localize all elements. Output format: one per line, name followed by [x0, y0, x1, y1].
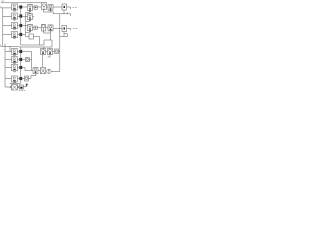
wire gate pin bus: [26, 12, 30, 35]
gate A3: [28, 25, 33, 32]
wire row2 box to junction: [18, 16, 20, 18]
wire row3 terminal lead: [67, 29, 71, 31]
meter P1: [55, 49, 59, 54]
wire row6 left lead: [5, 59, 12, 61]
wire row3 to right: [53, 28, 62, 30]
wire output module pin drop: [63, 10, 65, 14]
wire row4 drop: [39, 37, 41, 46]
gate A2: [28, 14, 33, 21]
fuse F3: [34, 26, 37, 29]
wire row1 junction to gate: [22, 6, 28, 8]
breaker Q4: [29, 34, 34, 39]
wire row7 left lead: [5, 67, 12, 69]
driver B1: [42, 3, 47, 10]
wire top rail: [1, 2, 42, 4]
wire row7 box to junction: [18, 67, 20, 69]
wire row1 terminal lead: [67, 7, 71, 9]
wire O3 pin loop: [60, 32, 68, 37]
wire right bus: [59, 14, 61, 72]
wire row1 box to junction: [18, 6, 20, 8]
wire bottom feed: [10, 83, 20, 84]
wire relay pin drop K1: [50, 10, 52, 12]
opto-coupler U7: [12, 65, 18, 72]
wire row5 to bus: [59, 50, 60, 52]
wire row4 box to junction: [18, 34, 20, 36]
driver B3: [42, 24, 46, 31]
wire upper junction bus: [20, 9, 22, 46]
opto-coupler U4: [12, 32, 18, 39]
wire upper return rail: [21, 44, 44, 46]
wire driver B3 pin drop: [43, 31, 45, 33]
wire row8 box to junction: [18, 78, 20, 80]
wire K3 pin drop: [50, 31, 52, 33]
indicator H1: [26, 58, 30, 62]
relay K3: [48, 25, 53, 31]
junction block J6: [19, 58, 22, 61]
junction block J2: [19, 14, 22, 17]
wire lower return rail: [19, 46, 52, 48]
fuse F1: [34, 6, 37, 9]
label PS1: [19, 90, 25, 92]
wire row2 left lead: [3, 16, 12, 18]
opto-coupler U2: [12, 13, 18, 20]
wire row3 pin bus: [44, 33, 51, 40]
wire row5 link: [46, 51, 48, 53]
wire row4 link: [34, 36, 40, 38]
wire row3 left lead: [3, 25, 12, 27]
wire left bus: [2, 8, 4, 46]
wire row3 to driver: [37, 27, 41, 29]
wire row1 left lead: [1, 7, 12, 9]
wire row1 link: [47, 6, 49, 8]
current source G1: [47, 69, 51, 73]
junction block J5: [19, 50, 22, 53]
wire row9 left lead: [5, 86, 12, 88]
wire relay K5 drop: [42, 55, 44, 68]
terminal X1: [73, 6, 77, 8]
junction block J4: [19, 33, 22, 36]
junction block J8: [19, 77, 22, 80]
svg-text:1L1: 1L1: [1, 1, 5, 3]
opto-coupler U5: [12, 49, 18, 56]
wire row6 to collector: [30, 59, 32, 61]
wire driver B5 pin hook: [48, 55, 50, 58]
junction block J7: [19, 66, 22, 69]
opto-coupler U6: [12, 57, 18, 64]
wire row9 transformer link: [18, 86, 20, 88]
wire rail riser: [44, 40, 52, 47]
junction block J3: [19, 24, 22, 27]
rectifier V1: [41, 68, 46, 74]
opto-coupler U8: [12, 76, 18, 83]
wire riser top: [35, 74, 37, 76]
wire chain link: [38, 70, 41, 72]
wire end block drop: [26, 86, 28, 87]
opto-coupler U3: [12, 23, 18, 30]
wire output bus label row: [54, 14, 71, 16]
output module O1: [62, 4, 67, 10]
wire logic bus horizontal: [44, 12, 54, 14]
gate A1: [28, 5, 33, 12]
wire row3 junction to gate: [22, 25, 28, 27]
wire lower-left bus: [4, 44, 6, 87]
wire row4 junction to box: [22, 35, 29, 37]
pin tick 1: [67, 12, 69, 14]
node input terminal: [0, 6, 2, 8]
transformer T1: [10, 85, 19, 91]
contactor KM1: [33, 68, 38, 74]
wire row4 left lead: [3, 34, 12, 36]
wire row5 link2: [53, 51, 55, 53]
junction block J1: [19, 5, 22, 8]
driver B5: [48, 49, 53, 55]
wire row7 to chain: [22, 68, 33, 71]
wire row3 to fuse: [33, 27, 35, 29]
wire rail drop x10: [9, 46, 11, 51]
terminal X3: [73, 28, 77, 30]
wire mid rail: [1, 45, 19, 47]
wire rail drop to relay: [43, 47, 45, 49]
node rail left tick: [0, 45, 2, 47]
node end block: [26, 84, 28, 86]
output module O3: [62, 26, 67, 32]
relay K5: [41, 49, 46, 55]
power supply PS1: [19, 85, 23, 89]
indicator H2: [25, 76, 29, 81]
wire row6 junction to lamp: [22, 59, 26, 61]
wire row5 left lead: [5, 51, 12, 53]
wire row8 junction to lamp: [22, 78, 25, 80]
wire row5 collector: [22, 52, 32, 71]
wire driver pin drop B1: [43, 10, 45, 13]
wire row3 box to junction: [18, 25, 20, 27]
wire row3 link: [46, 27, 49, 29]
wire row1 to driver: [33, 6, 42, 8]
wire row9 output: [23, 86, 26, 88]
wire bottom output: [51, 71, 60, 73]
wire row5 box to junction: [18, 51, 20, 53]
wire row6 box to junction: [18, 59, 20, 61]
wire row2 junction to gate: [22, 16, 28, 18]
wire row2 output stub: [33, 16, 35, 18]
wire lower junction bus: [20, 47, 22, 84]
wire row1 output: [53, 6, 62, 8]
wire row8 left lead: [5, 78, 12, 80]
wire KM1 pin route: [29, 75, 36, 79]
relay K1: [48, 5, 53, 11]
opto-coupler U1: [12, 4, 18, 11]
